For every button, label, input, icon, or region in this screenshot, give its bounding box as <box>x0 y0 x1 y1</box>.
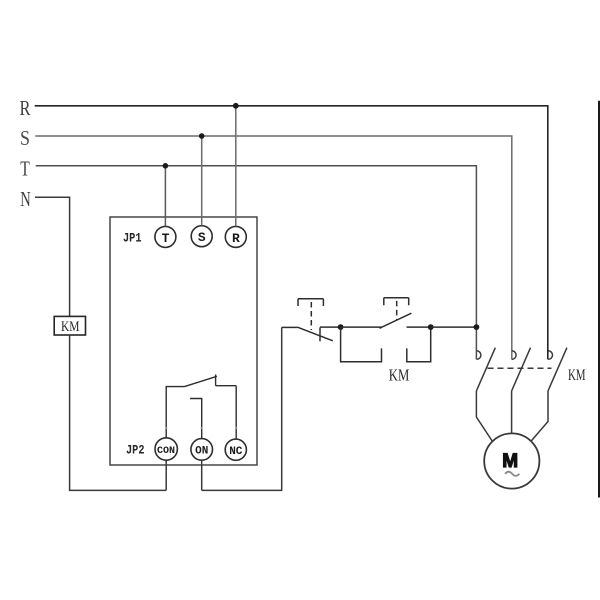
pin mark CON <box>165 427 167 429</box>
stop button right wire <box>320 326 341 328</box>
aux contact KM right leg <box>407 327 431 362</box>
wire T terminal to bus T <box>164 166 166 227</box>
start button actuator bar <box>384 298 409 306</box>
svg-text:S: S <box>20 126 30 150</box>
svg-text:NC: NC <box>229 446 243 458</box>
terminal T circle <box>155 226 176 247</box>
contactor pole1 lower wire <box>476 391 492 442</box>
wire R terminal to bus R <box>235 106 237 227</box>
terminal R circle <box>225 226 246 247</box>
junction dot on bus R <box>233 103 239 109</box>
relay common riser <box>166 387 184 438</box>
start button left wire <box>341 326 382 328</box>
junction dot on bus T <box>163 163 169 169</box>
svg-text:JP1: JP1 <box>123 231 142 246</box>
control wire to T drop <box>431 326 477 328</box>
device box JP1/JP2 <box>110 217 257 465</box>
motor M circle <box>484 433 539 488</box>
terminal NC circle <box>225 439 246 460</box>
terminal S circle <box>191 226 212 247</box>
svg-text:T: T <box>20 156 30 180</box>
pin mark ON <box>201 427 203 429</box>
wire CON drop <box>165 460 167 490</box>
relay NC stub tick <box>215 375 217 386</box>
relay blade <box>185 376 217 386</box>
svg-text:R: R <box>20 96 31 120</box>
contactor pole3 blade <box>548 348 567 391</box>
terminal ON circle <box>191 439 213 461</box>
stop button blade <box>298 327 333 341</box>
wire S terminal to bus S <box>201 136 203 226</box>
svg-text:JP2: JP2 <box>126 443 145 458</box>
svg-text:KM: KM <box>568 367 586 384</box>
junction dot on bus S <box>199 133 205 139</box>
contactor coil KM box <box>54 316 85 335</box>
svg-text:S: S <box>198 230 206 245</box>
relay ON stub <box>190 399 202 439</box>
svg-text:KM: KM <box>389 365 410 384</box>
svg-text:M: M <box>502 451 518 472</box>
start button actuator link dashed <box>396 301 398 320</box>
pin mark NC <box>235 427 237 429</box>
svg-text:KM: KM <box>61 319 80 335</box>
start button blade <box>380 313 412 328</box>
contactor pole1 fixed hook <box>477 351 481 360</box>
junction dot start right <box>428 324 434 330</box>
contactor pole3 lower wire <box>531 391 548 441</box>
stop button actuator bar <box>298 299 323 306</box>
svg-text:T: T <box>162 231 170 246</box>
contactor pole1 blade <box>476 348 495 391</box>
bus R wire <box>35 106 548 360</box>
junction dot T drop <box>474 324 480 330</box>
svg-text:CON: CON <box>157 446 175 457</box>
relay NC branch <box>216 386 237 439</box>
terminal CON circle <box>155 438 177 460</box>
cropped edge wire <box>598 101 600 498</box>
wire coil to bottom rail <box>70 335 167 490</box>
stop button left wire <box>282 326 298 328</box>
contactor pole2 fixed hook <box>512 351 516 360</box>
motor tilde <box>505 472 519 476</box>
junction dot stop/start <box>338 324 344 330</box>
aux contact KM left leg <box>341 327 382 362</box>
contactor pole2 blade <box>512 348 531 391</box>
svg-text:ON: ON <box>195 446 208 458</box>
contactor pole3 fixed hook <box>548 351 552 360</box>
wire ON drop <box>201 460 203 490</box>
svg-text:R: R <box>232 231 240 246</box>
control riser left <box>202 327 282 490</box>
bus S wire <box>35 136 512 359</box>
contactor pole2 lower wire <box>511 391 513 434</box>
svg-text:N: N <box>20 187 31 211</box>
contactor link dashed <box>488 367 552 369</box>
start button right wire <box>407 326 431 328</box>
stop button fixed stub <box>319 327 321 341</box>
wire N to coil <box>35 197 70 316</box>
bus T wire <box>36 166 477 360</box>
stop button actuator link dashed <box>310 302 312 330</box>
